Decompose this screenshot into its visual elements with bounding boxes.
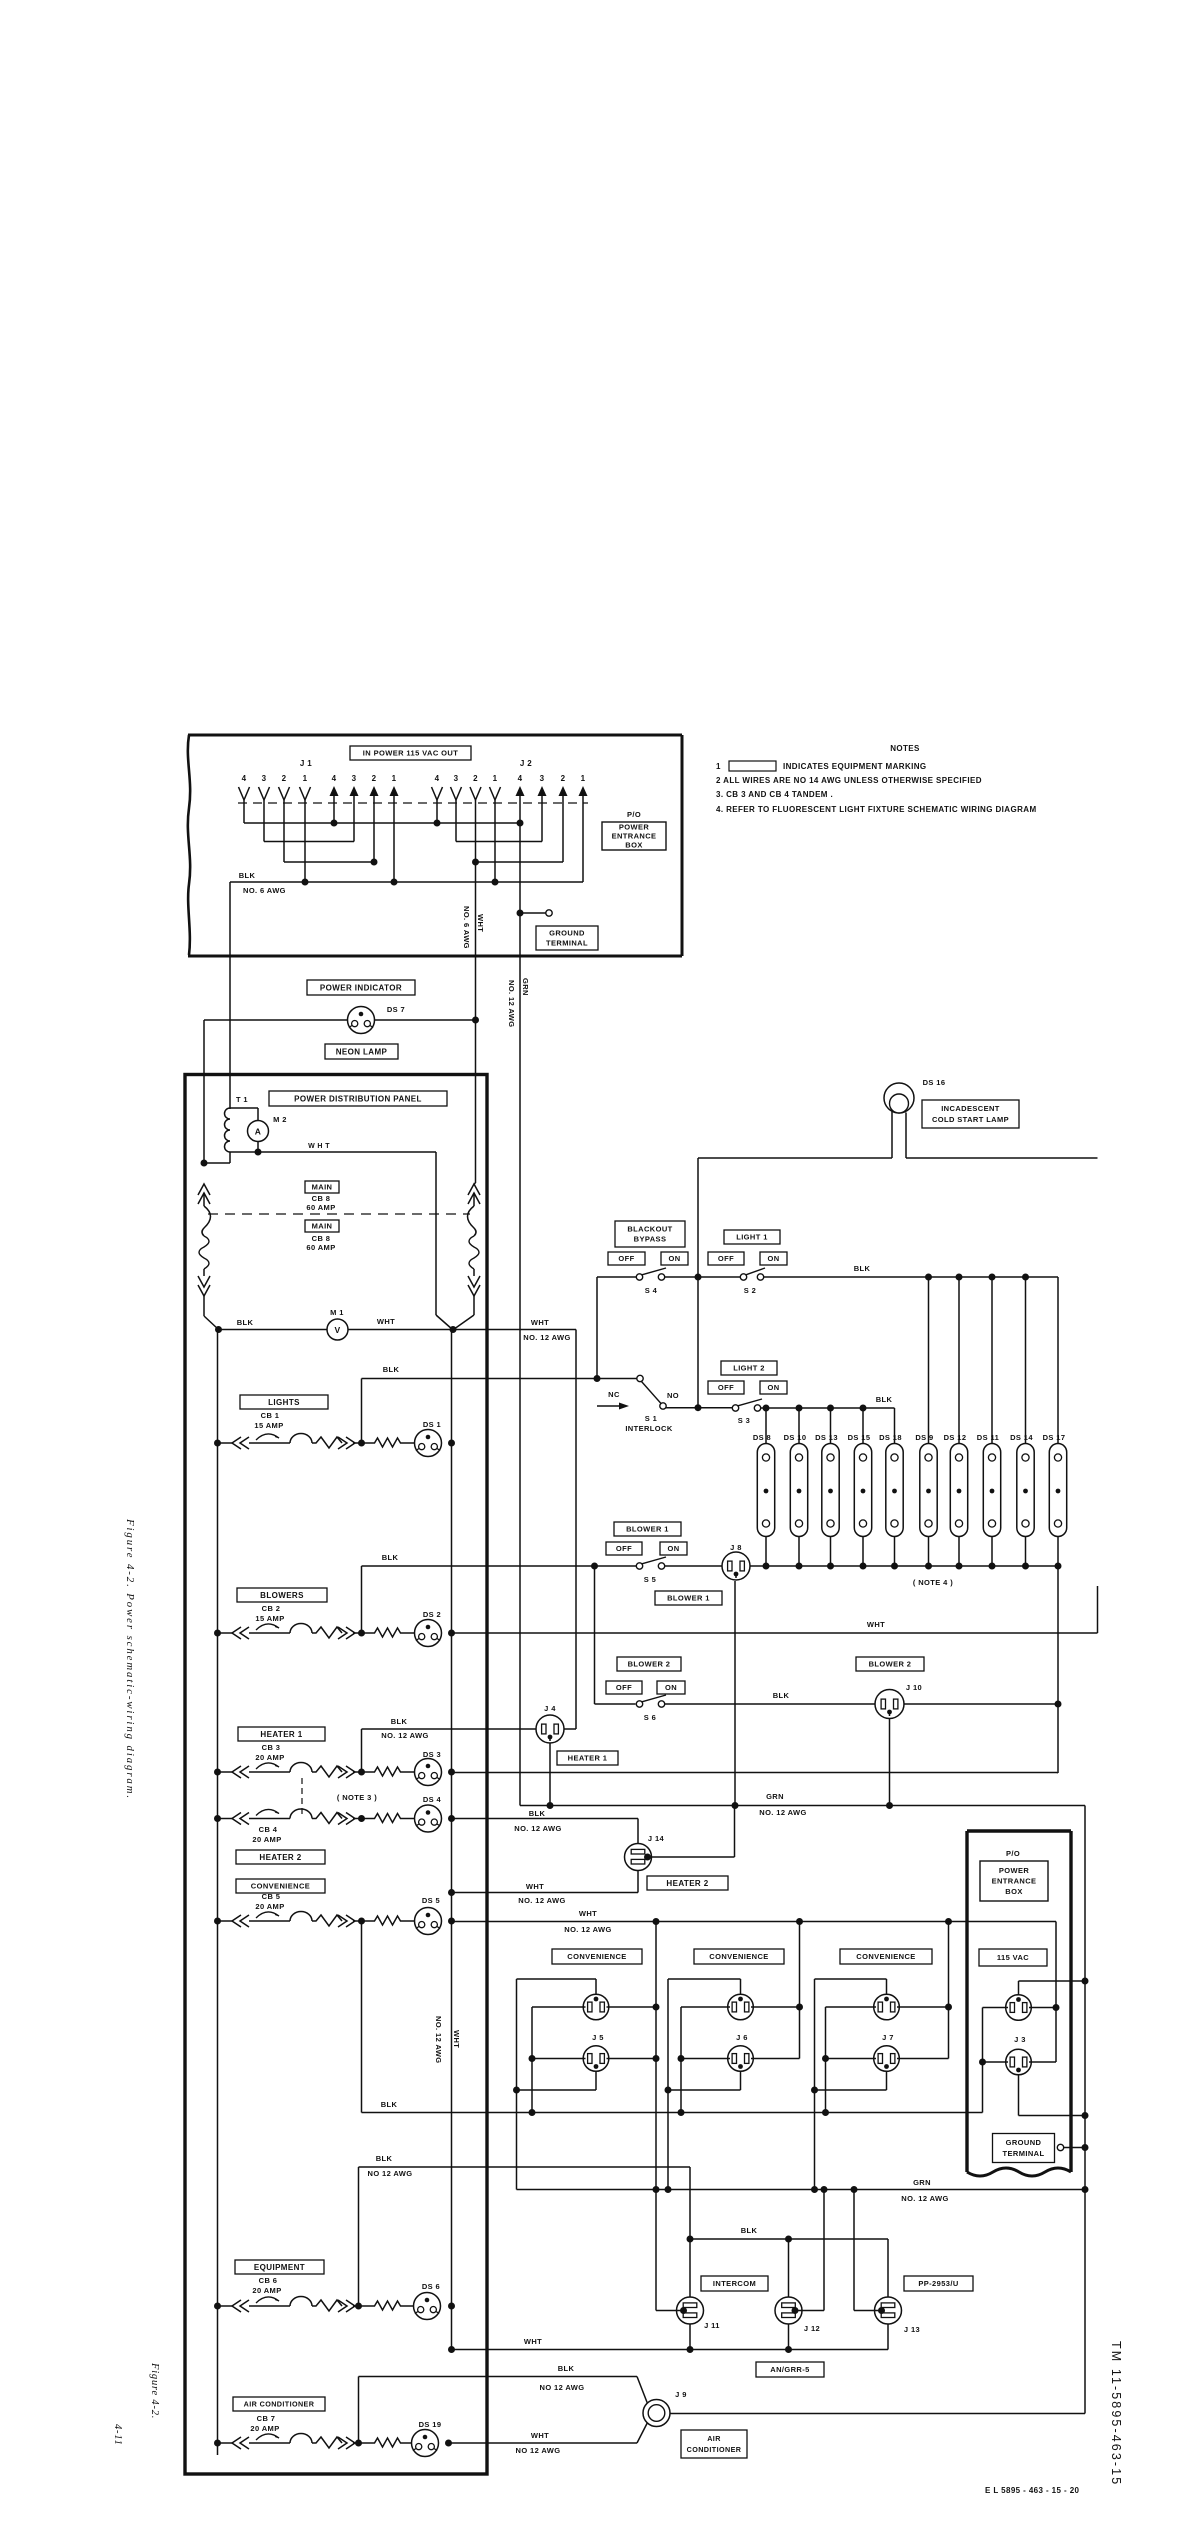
svg-text:3: 3 (454, 774, 459, 783)
junction (214, 1769, 221, 1776)
dashed CB3-CB4 tie (301, 1778, 303, 1814)
svg-text:BLOWER 2: BLOWER 2 (869, 1660, 912, 1669)
label HEATER 1 (equipment) (557, 1751, 618, 1765)
svg-text:NO. 12 AWG: NO. 12 AWG (434, 2016, 443, 2063)
svg-text:ON: ON (668, 1254, 680, 1263)
fluorescent lamp DS 15 (848, 1408, 872, 1566)
svg-text:BOX: BOX (1005, 1887, 1022, 1896)
page number 4-11 (112, 2424, 123, 2446)
svg-text:15 AMP: 15 AMP (255, 1614, 284, 1623)
wire S5 to J8 (665, 1565, 722, 1567)
label AIR CONDITIONER (233, 2397, 325, 2411)
svg-text:POWER INDICATOR: POWER INDICATOR (320, 983, 402, 992)
resistor DS6 ballast (362, 2301, 415, 2310)
svg-text:20 AMP: 20 AMP (255, 1902, 284, 1911)
svg-text:POWER DISTRIBUTION PANEL: POWER DISTRIBUTION PANEL (294, 1094, 422, 1103)
junction (851, 2186, 858, 2193)
svg-text:GRN: GRN (766, 1792, 784, 1801)
svg-text:ON: ON (767, 1254, 779, 1263)
junction (201, 1160, 208, 1167)
svg-text:NO. 12 AWG: NO. 12 AWG (564, 1925, 611, 1934)
resistor DS4 ballast (362, 1814, 415, 1823)
arrow NC (597, 1403, 629, 1410)
svg-text:BLOWERS: BLOWERS (260, 1591, 304, 1600)
label NC (608, 1390, 620, 1399)
junction (448, 1630, 455, 1637)
label NO. 6 AWG (vertical) (462, 906, 471, 949)
label GRN (vertical) (521, 978, 530, 996)
resistor DS2 ballast (362, 1628, 415, 1637)
svg-text:GRN: GRN (913, 2178, 931, 2187)
label OFF (S5) (606, 1542, 642, 1555)
svg-text:IN POWER 115 VAC OUT: IN POWER 115 VAC OUT (363, 749, 458, 758)
label ON (S2) (760, 1252, 787, 1265)
wire BLK drop (229, 882, 231, 1108)
fluorescent lamp DS 11 (977, 1277, 1001, 1566)
svg-text:CONVENIENCE: CONVENIENCE (251, 1882, 310, 1891)
wire J11 bottom lead (689, 2324, 691, 2350)
svg-text:DS 1: DS 1 (423, 1420, 441, 1429)
svg-text:115 VAC: 115 VAC (997, 1953, 1029, 1962)
wire DS17 column corner (1057, 1772, 1058, 1775)
label DS 3 (423, 1750, 441, 1759)
junction (302, 879, 309, 886)
svg-text:OFF: OFF (616, 1544, 632, 1553)
J2 pin 2 (in), female contact (470, 774, 481, 862)
svg-text:NO 12 AWG: NO 12 AWG (540, 2383, 585, 2392)
svg-text:V: V (334, 1325, 340, 1335)
svg-text:MAIN: MAIN (312, 1183, 333, 1192)
label CB 4 20 AMP (252, 1825, 281, 1844)
junction (255, 1149, 262, 1156)
svg-text:BLK: BLK (382, 1553, 399, 1562)
svg-text:OFF: OFF (616, 1683, 632, 1692)
svg-text:ON: ON (665, 1683, 677, 1692)
label BLK NO 12 AWG (CB6) (368, 2154, 413, 2178)
svg-text:DS 5: DS 5 (422, 1896, 440, 1905)
label POWER INDICATOR (307, 980, 415, 995)
junction (796, 1563, 803, 1570)
label WHT (524, 2337, 542, 2346)
svg-text:DS 12: DS 12 (944, 1433, 967, 1442)
J1 pin 2 (in), female contact (279, 774, 290, 862)
fluorescent lamp DS 13 (815, 1408, 839, 1566)
junction (215, 1326, 222, 1333)
svg-text:J 6: J 6 (736, 2033, 748, 2042)
svg-text:ON: ON (767, 1383, 779, 1392)
wire DS16 right (906, 1157, 1098, 1159)
junction (547, 1802, 554, 1809)
svg-text:J 7: J 7 (882, 2033, 894, 2042)
label AIR CONDITIONER (equipment) (681, 2430, 747, 2458)
svg-text:DS 6: DS 6 (422, 2282, 440, 2291)
svg-text:3: 3 (262, 774, 267, 783)
junction (448, 1815, 455, 1822)
wire T1 bottom to CB8 (204, 1162, 230, 1164)
indicator lamp DS19 (412, 2430, 439, 2457)
svg-text:T 1: T 1 (236, 1095, 248, 1104)
connector J11 (677, 2297, 720, 2330)
wire CB3 tap to J4 (362, 1729, 537, 1772)
svg-text:1: 1 (716, 762, 721, 771)
incandescent lamp DS16 (884, 1083, 914, 1158)
svg-text:INTERCOM: INTERCOM (713, 2279, 756, 2288)
label WHT (vertical) (476, 914, 485, 932)
label CB 1 15 AMP (254, 1411, 283, 1430)
wire J6 right pins (796, 1918, 803, 2059)
svg-text:ENTRANCE: ENTRANCE (612, 832, 657, 841)
svg-text:NOTES: NOTES (890, 744, 920, 753)
indicator lamp DS1 (415, 1430, 442, 1457)
label LIGHTS (240, 1395, 328, 1409)
svg-text:BLK: BLK (854, 1264, 871, 1273)
svg-text:CONVENIENCE: CONVENIENCE (856, 1952, 915, 1961)
label BLK (382, 1553, 399, 1562)
svg-text:1: 1 (392, 774, 397, 783)
label ON (S6) (657, 1681, 685, 1694)
resistor DS1 ballast (362, 1438, 415, 1447)
junction (891, 1563, 898, 1570)
svg-text:BLK: BLK (383, 1365, 400, 1374)
wire WHT from T1 (230, 1151, 436, 1153)
junction (472, 859, 479, 866)
wire J10 to DS17 column (904, 1703, 1058, 1705)
svg-text:WHT: WHT (526, 1882, 544, 1891)
resistor DS5 ballast (362, 1916, 415, 1925)
svg-text:CB 7: CB 7 (257, 2414, 276, 2423)
junction (860, 1563, 867, 1570)
J1 pin 1 (out), male contact (390, 774, 399, 882)
junction (214, 2303, 221, 2310)
label S 1 INTERLOCK (625, 1414, 673, 1433)
svg-text:ENTRANCE: ENTRANCE (992, 1877, 1037, 1886)
svg-text:NO: NO (667, 1391, 679, 1400)
svg-text:NO. 12 AWG: NO. 12 AWG (507, 980, 516, 1027)
svg-text:DS 19: DS 19 (419, 2420, 442, 2429)
label BLK (237, 1318, 254, 1327)
svg-text:OFF: OFF (718, 1383, 734, 1392)
junction (358, 1630, 365, 1637)
junction (358, 1815, 365, 1822)
label J 8 (730, 1543, 742, 1552)
junction (1082, 2112, 1089, 2119)
svg-text:J 3: J 3 (1014, 2035, 1026, 2044)
label NO (667, 1391, 679, 1400)
wire J3 left pins (979, 2008, 1008, 2113)
junction (448, 2303, 455, 2310)
junction (355, 2303, 362, 2310)
wire WHT down (436, 1152, 453, 1330)
label BLK (383, 1365, 400, 1374)
label PP-2953/U (904, 2276, 973, 2291)
junction (448, 1918, 455, 1925)
wire S4 feed (597, 1277, 637, 1379)
junction J14 right pin (644, 1854, 651, 1861)
label CB 6 20 AMP (252, 2276, 281, 2295)
J1 pin 4 (out), male contact (330, 774, 339, 823)
label MAIN CB8 60 AMP (lower) (305, 1220, 339, 1252)
label CB 3 20 AMP (255, 1743, 284, 1762)
svg-text:S 2: S 2 (744, 1286, 756, 1295)
junction (732, 1802, 739, 1809)
label DS 6 (422, 2282, 440, 2291)
svg-text:CB 8: CB 8 (312, 1234, 331, 1243)
label AN/GRR-5 (756, 2362, 824, 2377)
svg-text:CB 5: CB 5 (262, 1892, 281, 1901)
label CONVENIENCE (J6) (694, 1949, 784, 1964)
label OFF (S2) (708, 1252, 744, 1265)
circuit breaker CB6 (218, 2297, 362, 2313)
connector J9 (643, 2400, 670, 2427)
note 3 (716, 790, 833, 799)
wire J5 right pins / ground riser (653, 1918, 660, 2190)
label BLK NO.12 AWG (J4) (381, 1717, 428, 1740)
junction (785, 2346, 792, 2353)
label LIGHT 1 (724, 1230, 780, 1244)
indicator lamp DS3 (415, 1759, 442, 1786)
svg-text:INCADESCENT: INCADESCENT (941, 1104, 1000, 1113)
svg-text:4: 4 (518, 774, 523, 783)
junction (695, 1404, 702, 1411)
svg-text:AIR CONDITIONER: AIR CONDITIONER (244, 2400, 315, 2409)
svg-text:BLACKOUT: BLACKOUT (627, 1225, 672, 1234)
wire J9 to GRN riser (670, 2190, 1085, 2414)
label INTERCOM (701, 2276, 768, 2291)
wire ground terminal stub (520, 912, 546, 914)
label S 2 (744, 1286, 756, 1295)
junction (331, 820, 338, 827)
svg-text:2: 2 (372, 774, 377, 783)
svg-text:WHT: WHT (476, 914, 485, 932)
junction (989, 1274, 996, 1281)
svg-text:BLOWER 1: BLOWER 1 (667, 1594, 710, 1603)
label CONVENIENCE (J7) (840, 1949, 932, 1964)
junction (214, 2440, 221, 2447)
svg-text:J 11: J 11 (704, 2321, 720, 2330)
svg-text:GROUND: GROUND (549, 929, 585, 938)
svg-text:J 13: J 13 (904, 2325, 920, 2334)
power entrance box (bottom) outline (967, 1831, 1071, 2176)
svg-text:NEON LAMP: NEON LAMP (336, 1047, 388, 1056)
junction (695, 1274, 702, 1281)
fluorescent lamp DS 10 (784, 1408, 808, 1566)
label M 1 (330, 1308, 344, 1317)
resistor DS3 ballast (362, 1767, 415, 1776)
label NO. 12 AWG (vertical) (507, 980, 516, 1027)
svg-text:A: A (255, 1127, 262, 1137)
ammeter M2 (248, 1121, 269, 1142)
fluorescent lamp DS 8 (753, 1408, 775, 1566)
label WHT (vertical, neutral) (452, 2030, 461, 2048)
svg-text:LIGHT 1: LIGHT 1 (736, 1233, 768, 1242)
svg-text:2: 2 (561, 774, 566, 783)
svg-text:3. CB 3 AND CB 4 TANDEM .: 3. CB 3 AND CB 4 TANDEM . (716, 790, 833, 799)
svg-text:BLK: BLK (741, 2226, 758, 2235)
junction J13 left pin (878, 2307, 885, 2314)
fluorescent lamp DS 18 (879, 1408, 903, 1566)
junction (860, 1405, 867, 1412)
connector J10 (875, 1690, 904, 1719)
svg-text:GROUND: GROUND (1006, 2138, 1042, 2147)
svg-text:CB 4: CB 4 (259, 1825, 278, 1834)
svg-text:J 9: J 9 (675, 2390, 687, 2399)
label MAIN CB8 60 AMP (upper) (305, 1181, 339, 1212)
label CONVENIENCE (236, 1879, 325, 1893)
wire blower WHT line (452, 1632, 1098, 1634)
label BLK (854, 1264, 871, 1273)
svg-text:DS 4: DS 4 (423, 1795, 442, 1804)
svg-text:J 1: J 1 (300, 759, 312, 768)
wire T1 top branch (230, 1108, 258, 1121)
voltmeter M1 (327, 1319, 348, 1340)
svg-text:NO. 12 AWG: NO. 12 AWG (514, 1824, 561, 1833)
wire J7 right pins (945, 1918, 952, 2059)
wire J13 left to GRN (854, 2190, 882, 2311)
svg-text:HEATER 2: HEATER 2 (666, 1879, 708, 1888)
receptacle J7 (815, 1979, 949, 2116)
svg-text:DS 7: DS 7 (387, 1005, 405, 1014)
label EQUIPMENT (235, 2260, 324, 2274)
svg-text:60 AMP: 60 AMP (306, 1203, 335, 1212)
svg-text:LIGHT 2: LIGHT 2 (733, 1364, 765, 1373)
wire intercom BLK bus (690, 2238, 888, 2240)
wire CB6 BLK tap (359, 2167, 691, 2306)
svg-text:DS 8: DS 8 (753, 1433, 771, 1442)
junction (472, 1017, 479, 1024)
wire J6 ground to GRN (667, 2090, 669, 2190)
wire J7 ground to GRN (814, 2090, 816, 2190)
wire CB7 BLK tap (359, 2377, 638, 2444)
label DS 16 (923, 1078, 946, 1087)
svg-text:S 4: S 4 (645, 1286, 658, 1295)
wire DS7 left lead (204, 1019, 348, 1021)
wire heater WHT line (452, 1772, 1058, 1774)
wire pin-2 bus J2 (WHT net) (476, 861, 564, 863)
switch S3 (732, 1399, 762, 1411)
label S 3 (738, 1416, 750, 1425)
junction (785, 2236, 792, 2243)
label S 6 (644, 1713, 656, 1722)
label J 14 (648, 1834, 665, 1843)
svg-text:20 AMP: 20 AMP (250, 2424, 279, 2433)
junction (665, 2186, 672, 2193)
label M 2 (273, 1115, 287, 1124)
svg-text:MAIN: MAIN (312, 1222, 333, 1231)
wire J4 right pin (564, 1728, 576, 1730)
label 115 VAC (979, 1949, 1047, 1966)
svg-text:LIGHTS: LIGHTS (268, 1398, 300, 1407)
junction (925, 1274, 932, 1281)
junction (448, 2346, 455, 2353)
connector J1 label (300, 759, 312, 768)
note 4 (716, 805, 1037, 814)
label DS 5 (422, 1896, 440, 1905)
svg-text:NO 12 AWG: NO 12 AWG (516, 2446, 561, 2455)
svg-text:AIR: AIR (707, 2434, 721, 2443)
svg-text:CONVENIENCE: CONVENIENCE (709, 1952, 768, 1961)
junction (1082, 2144, 1089, 2151)
receptacle J5 (517, 1979, 657, 2116)
wire DS7 right lead (375, 1019, 476, 1021)
junction (665, 2087, 672, 2094)
junction (517, 820, 524, 827)
junction (886, 1802, 893, 1809)
svg-text:BLOWER 1: BLOWER 1 (626, 1525, 669, 1534)
svg-text:20 AMP: 20 AMP (252, 2286, 281, 2295)
svg-text:GRN: GRN (521, 978, 530, 996)
label ON (S4) (661, 1252, 688, 1265)
junction (492, 879, 499, 886)
junction (594, 1375, 601, 1382)
connector J8 (722, 1552, 750, 1580)
wire J12 top lead (788, 2239, 790, 2297)
svg-text:BLK: BLK (376, 2154, 393, 2163)
svg-text:S 3: S 3 (738, 1416, 750, 1425)
svg-text:NC: NC (608, 1390, 620, 1399)
label WHT NO.12 AWG (523, 1318, 570, 1342)
wire main bus right (348, 1329, 576, 1331)
junction (513, 2087, 520, 2094)
label HEATER 1 (238, 1727, 325, 1741)
junction (358, 1918, 365, 1925)
svg-text:DS 13: DS 13 (815, 1433, 838, 1442)
label BLOWER 1 (equipment) (655, 1591, 722, 1605)
wire J14 to GRN (646, 1807, 735, 1857)
svg-text:DS 18: DS 18 (879, 1433, 902, 1442)
junction (1082, 1978, 1089, 1985)
svg-text:2: 2 (282, 774, 287, 783)
wire WHT corner up (1097, 1586, 1099, 1633)
junction (827, 1563, 834, 1570)
J2 pin 3 (out), male contact (538, 774, 547, 842)
svg-text:( NOTE 3 ): ( NOTE 3 ) (337, 1793, 377, 1802)
indicator lamp DS4 (415, 1805, 442, 1832)
svg-text:J 4: J 4 (544, 1704, 556, 1713)
svg-text:4: 4 (435, 774, 440, 783)
circuit breaker CB1 (218, 1434, 362, 1449)
svg-text:( NOTE 4 ): ( NOTE 4 ) (913, 1578, 953, 1587)
svg-text:J 12: J 12 (804, 2324, 820, 2333)
svg-text:INDICATES EQUIPMENT MARKING: INDICATES EQUIPMENT MARKING (783, 762, 927, 771)
junction (358, 1769, 365, 1776)
svg-text:AN/GRR-5: AN/GRR-5 (770, 2365, 809, 2374)
wire BLK drop to intercom bus (689, 2167, 691, 2239)
wire to S1 (362, 1378, 637, 1380)
label BLOWER 2 (switch) (617, 1657, 681, 1671)
svg-text:BYPASS: BYPASS (634, 1235, 667, 1244)
junction (811, 2186, 818, 2193)
circuit breaker CB2 (218, 1624, 362, 1639)
wire WHT diagonal to J9 (637, 2423, 648, 2444)
svg-text:DS 3: DS 3 (423, 1750, 441, 1759)
J2 pin 1 (out), male contact (579, 774, 588, 882)
label BLK (773, 1691, 790, 1700)
svg-text:J 14: J 14 (648, 1834, 665, 1843)
svg-text:TERMINAL: TERMINAL (1003, 2149, 1045, 2158)
svg-text:J 10: J 10 (906, 1683, 922, 1692)
J2 pin 4 (out), male contact (516, 774, 525, 823)
label GRN NO. 12 AWG (759, 1792, 806, 1817)
label INCADESCENT COLD START LAMP (922, 1100, 1019, 1128)
junction (811, 2087, 818, 2094)
svg-text:CONDITIONER: CONDITIONER (687, 2445, 742, 2454)
svg-text:POWER: POWER (619, 823, 650, 832)
J2 pin 3 (in), female contact (451, 774, 462, 842)
svg-text:M 1: M 1 (330, 1308, 344, 1317)
label P/O POWER ENTRANCE BOX (top) (602, 810, 666, 850)
svg-text:BLK: BLK (876, 1395, 893, 1404)
junction (448, 1769, 455, 1776)
